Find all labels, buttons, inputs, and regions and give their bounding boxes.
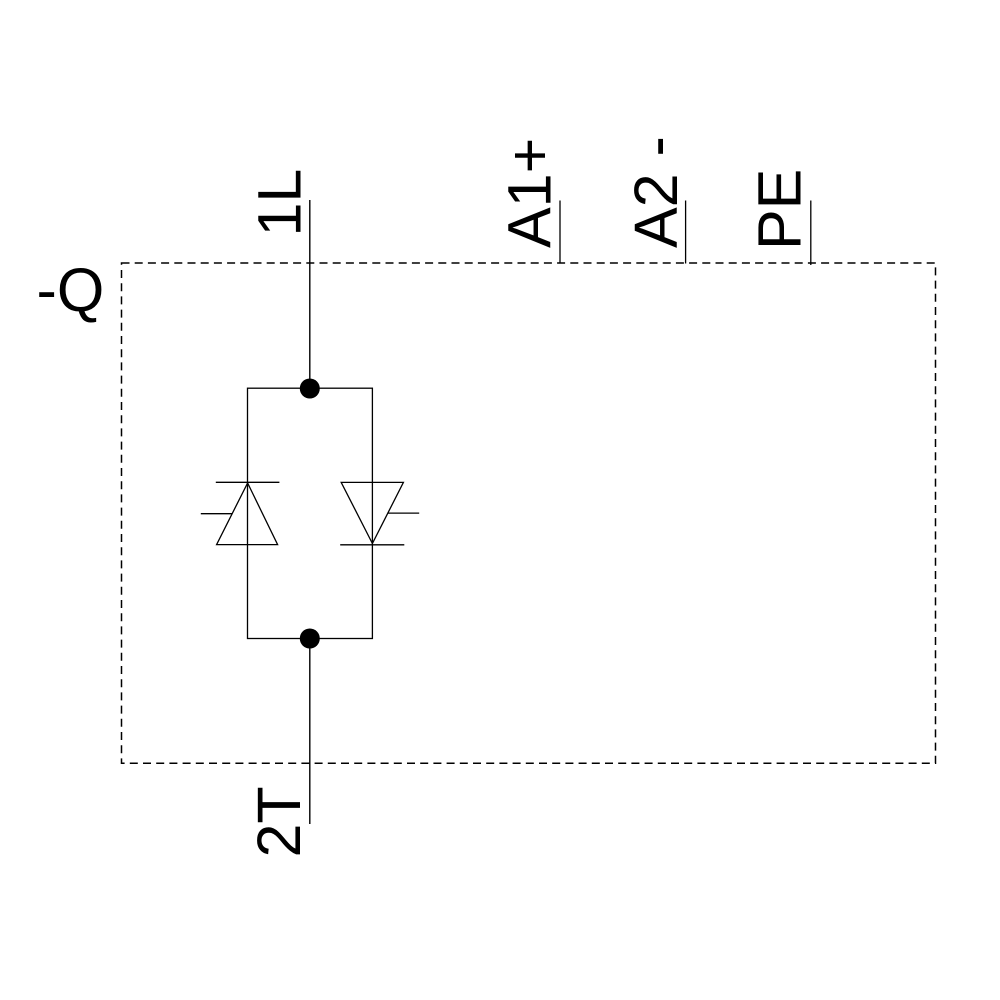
svg-text:1L: 1L xyxy=(246,169,314,237)
svg-text:2T: 2T xyxy=(245,786,313,857)
svg-text:A1+: A1+ xyxy=(496,138,564,248)
svg-text:-Q: -Q xyxy=(37,256,105,324)
svg-text:A2 -: A2 - xyxy=(622,136,690,248)
svg-text:PE: PE xyxy=(746,169,814,250)
